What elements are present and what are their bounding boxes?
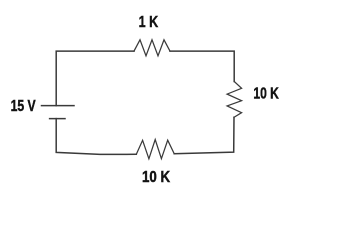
svg-text:15 V: 15 V — [11, 97, 37, 115]
resistor R3 10K zigzag (bottom) — [136, 140, 174, 159]
wire: battery positive up left side and across top to R1 — [56, 51, 134, 106]
wire: R3 to bottom-left corner up to battery negative — [56, 119, 136, 155]
svg-text:10 K: 10 K — [253, 85, 279, 103]
svg-text:10 K: 10 K — [142, 169, 171, 186]
wire: R2 to bottom-right corner to R3 — [174, 117, 234, 153]
battery B1 negative plate (short) — [50, 118, 65, 120]
svg-text:1 K: 1 K — [139, 14, 159, 32]
battery B1 positive plate (long) — [42, 105, 75, 107]
resistor R2 10K zigzag (right) — [227, 82, 242, 118]
wire: R1 to top-right corner down to R2 — [170, 51, 234, 81]
resistor R1 1K zigzag — [134, 40, 170, 56]
